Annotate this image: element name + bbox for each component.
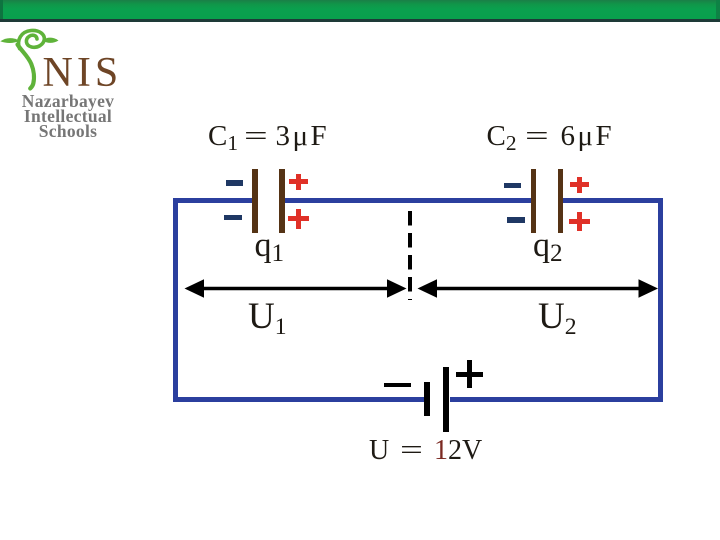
C1 plus polarity sign upper bbox=[289, 174, 308, 190]
capacitor C1 right plate bbox=[279, 169, 285, 233]
top bar darker right edge bbox=[716, 0, 720, 19]
voltage arrow U1 left head bbox=[185, 279, 205, 298]
battery minus sign bbox=[384, 383, 411, 388]
wire: left vertical side of loop bbox=[173, 198, 178, 402]
voltage arrow U2 right head bbox=[639, 279, 659, 298]
C1 minus polarity sign upper bbox=[226, 180, 243, 186]
C2 minus polarity sign lower bbox=[507, 217, 525, 223]
battery positive plate (long) bbox=[443, 367, 449, 432]
sprout stem bbox=[18, 45, 34, 89]
voltage label U1 bbox=[248, 298, 287, 335]
logo text NIS bbox=[43, 52, 123, 94]
capacitor C1 value label: equals bbox=[244, 122, 260, 151]
battery voltage label: 12V bbox=[434, 437, 482, 465]
voltage arrow U2 left head bbox=[418, 279, 438, 298]
sprout spiral curl bbox=[19, 30, 45, 48]
wire: top segment from left corner to C1 bbox=[173, 198, 252, 203]
capacitor C1 value label: 3uF bbox=[276, 122, 330, 151]
wire: bottom segment from left corner to battery bbox=[173, 397, 425, 402]
voltage arrow U1 shaft bbox=[196, 287, 396, 291]
capacitor C2 left plate bbox=[531, 169, 537, 233]
C2 minus polarity sign upper bbox=[504, 183, 521, 189]
capacitor C1 left plate bbox=[252, 169, 258, 233]
wire: top segment between C1 and C2 bbox=[285, 198, 532, 203]
battery voltage label: equals bbox=[400, 437, 416, 465]
voltage label U2 bbox=[538, 298, 577, 335]
dashed node divider line bbox=[408, 211, 412, 300]
capacitor C2 value label: 6uF bbox=[561, 122, 615, 151]
C2 plus polarity sign lower bbox=[569, 212, 590, 232]
capacitor C2 value label: C2 bbox=[487, 122, 517, 151]
sprout right leaf bbox=[43, 38, 59, 43]
voltage arrow U1 right head bbox=[387, 279, 407, 298]
battery plus sign bbox=[456, 360, 483, 388]
C2 charge label q2 bbox=[533, 229, 563, 263]
top bar dark bottom edge bbox=[0, 19, 720, 22]
capacitor C1 value label: C1 bbox=[208, 122, 238, 151]
NIS logo sprout icon bbox=[0, 27, 130, 147]
top bar darker left edge bbox=[0, 0, 3, 19]
wire: bottom segment from battery to right corner bbox=[450, 397, 664, 402]
C2 plus polarity sign upper bbox=[570, 177, 589, 193]
sprout left leaf bbox=[0, 38, 20, 43]
battery voltage label: U bbox=[369, 437, 389, 465]
C1 charge label q1 bbox=[255, 229, 285, 263]
voltage arrow U2 shaft bbox=[428, 287, 648, 291]
capacitor C2 right plate bbox=[558, 169, 564, 233]
capacitor C2 value label: equals bbox=[525, 122, 541, 151]
wire: top segment from C2 to right corner bbox=[563, 198, 664, 203]
C1 plus polarity sign lower bbox=[288, 209, 309, 229]
C1 minus polarity sign lower bbox=[224, 215, 242, 221]
wire: right vertical side of loop bbox=[658, 198, 663, 402]
battery negative plate (short) bbox=[424, 382, 430, 416]
top green title bar bbox=[0, 0, 720, 19]
logo text Nazarbayev Intellectual Schools bbox=[8, 94, 128, 139]
